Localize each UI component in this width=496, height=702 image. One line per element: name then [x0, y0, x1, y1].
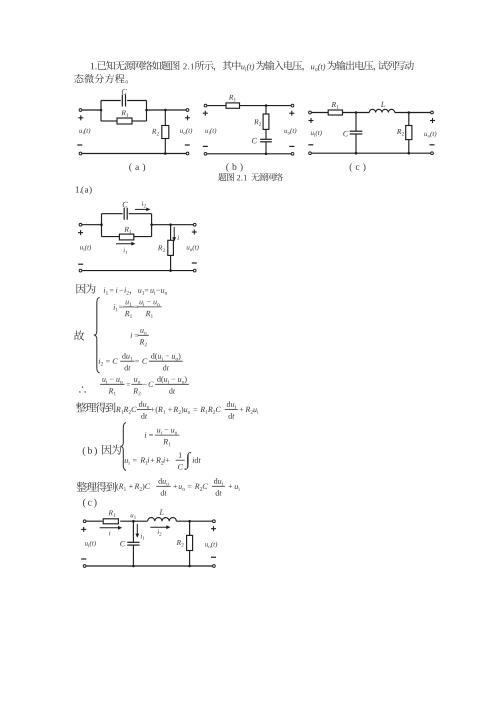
- circuit (b): R1 series, R2+C shunt: [203, 95, 297, 155]
- minus sign input: [81, 558, 86, 560]
- current arrow i: [172, 227, 176, 242]
- output terminal top-right: [213, 520, 216, 523]
- value label C: [122, 89, 127, 95]
- wire bottom branch right: [132, 120, 147, 122]
- node2 bottom junction: [188, 565, 191, 568]
- current arrow i1: [116, 242, 136, 246]
- input terminal top-left: [79, 223, 82, 226]
- minus sign output: [211, 556, 216, 558]
- capacitor C: [260, 139, 272, 142]
- plus sign input: [309, 118, 314, 123]
- plus sign input: [78, 115, 83, 120]
- minus sign input: [78, 263, 83, 265]
- plus sign output: [192, 230, 197, 235]
- wire node down to R2: [170, 225, 172, 241]
- label uo(t): [205, 542, 217, 549]
- node2 junction: [408, 111, 411, 114]
- output terminal bottom-right: [186, 152, 189, 155]
- resistor R1: [119, 234, 133, 240]
- resistor R2: [406, 126, 412, 140]
- wire right branch vertical: [146, 101, 148, 122]
- node2 junction: [188, 520, 191, 523]
- label ui(t): [79, 128, 90, 134]
- node C bottom junction: [132, 565, 135, 568]
- wire node2 down to R2: [189, 521, 191, 535]
- node junction top: [265, 104, 268, 107]
- circuit (c) solution: R1, C shunt, L, R2 with currents: [81, 510, 217, 568]
- label i1: [141, 534, 145, 540]
- label i2: [158, 529, 162, 535]
- circuit (c): R1 series, C shunt, L series, R2 shunt: [308, 102, 436, 155]
- circuit 1(a): RC parallel network with currents: [78, 201, 199, 272]
- wire node down to R2: [265, 106, 267, 114]
- input terminal bottom-left: [309, 152, 312, 155]
- output terminal bottom-right: [213, 565, 216, 568]
- current arrow i1: [135, 524, 139, 538]
- resistor R1: [226, 103, 240, 108]
- wire R1 to node: [240, 105, 267, 107]
- label R2: [397, 129, 404, 136]
- wire right branch vertical: [151, 214, 153, 237]
- wire top branch left: [101, 100, 121, 102]
- node R2 top junction: [164, 109, 167, 112]
- plus sign input: [203, 111, 208, 116]
- wire left branch vertical: [100, 101, 102, 122]
- wire node1 down to C: [355, 113, 357, 132]
- wire C to rail: [355, 134, 357, 153]
- wire left branch vertical: [101, 214, 103, 237]
- wire R1 to node1: [343, 112, 370, 114]
- label u1: [131, 514, 136, 519]
- minus sign input: [203, 145, 208, 147]
- resistor R2: [187, 535, 193, 550]
- wire R2 to rail: [170, 255, 172, 270]
- wire node2 down to R2: [408, 113, 410, 126]
- minus sign input: [308, 144, 313, 146]
- inductor L: [369, 109, 394, 112]
- input terminal top-left: [204, 104, 207, 107]
- node1 bottom junction: [355, 152, 358, 155]
- output terminal top-right: [193, 223, 196, 226]
- wire R2 to rail: [408, 140, 410, 154]
- wire C to rail: [132, 545, 134, 566]
- label L: [159, 510, 163, 515]
- wire R2 up: [164, 110, 166, 126]
- wire L to node2: [176, 520, 214, 522]
- output terminal bottom-right: [291, 152, 294, 155]
- input terminal top-left: [83, 520, 86, 523]
- wire bottom branch left: [101, 120, 117, 122]
- resistor R2: [162, 126, 169, 139]
- label R2: [176, 540, 183, 547]
- inductor L: [148, 518, 177, 522]
- wire R2 down: [164, 139, 166, 154]
- label R2: [158, 245, 165, 252]
- caption (b): [226, 163, 242, 172]
- output terminal top-right: [291, 104, 294, 107]
- resistor R1: [103, 519, 118, 524]
- minus sign output: [430, 144, 435, 146]
- input terminal bottom-left: [79, 152, 82, 155]
- wire top branch right: [129, 213, 152, 215]
- wire input to node: [82, 224, 102, 226]
- wire input to R1: [86, 520, 102, 522]
- output terminal top-right: [431, 111, 434, 114]
- node R2 bottom junction: [169, 269, 172, 272]
- input terminal bottom-left: [204, 152, 207, 155]
- label R1: [121, 110, 128, 117]
- output terminal bottom-right: [193, 269, 196, 272]
- label ui(t): [311, 130, 322, 136]
- label uo(t): [187, 245, 199, 252]
- node u1 junction: [132, 520, 135, 523]
- label ui(t): [80, 245, 91, 251]
- wire bottom rail: [312, 152, 431, 154]
- label R1: [331, 102, 338, 109]
- label C: [343, 131, 348, 137]
- capacitor C: [124, 208, 127, 220]
- input terminal top-left: [309, 111, 312, 114]
- wire input to node: [82, 109, 101, 111]
- plus sign input: [81, 527, 86, 532]
- node1 junction: [355, 111, 358, 114]
- caption (c): [350, 163, 366, 172]
- label C: [123, 202, 128, 208]
- minus sign output: [192, 262, 197, 264]
- label i: [109, 531, 110, 536]
- label i2: [142, 201, 146, 207]
- wire node to output: [266, 105, 293, 107]
- label uo(t): [180, 128, 192, 135]
- resistor R2: [168, 240, 174, 255]
- current arrow i2: [135, 208, 151, 212]
- node right junction: [150, 223, 153, 226]
- plus sign output: [430, 118, 435, 123]
- label R1: [229, 95, 236, 102]
- input terminal top-left: [79, 109, 82, 112]
- current arrow i2: [150, 525, 170, 529]
- wire R2 to C: [265, 129, 267, 139]
- wire top branch right: [127, 100, 146, 102]
- node right junction: [145, 109, 148, 112]
- minus sign output: [185, 144, 190, 146]
- label R2: [254, 119, 261, 126]
- label uo(t): [284, 128, 296, 135]
- wire bottom rail: [82, 153, 186, 155]
- label i: [178, 235, 179, 240]
- label R1: [124, 227, 131, 234]
- wire R1 to node u1: [120, 520, 147, 522]
- current arrow i: [100, 526, 123, 530]
- label uo(t): [424, 131, 436, 138]
- plus sign output: [211, 526, 216, 531]
- minus sign output: [289, 145, 294, 147]
- wire L to node2: [395, 112, 432, 114]
- plus sign input: [78, 230, 83, 235]
- capacitor C: [127, 542, 139, 545]
- capacitor C: [350, 131, 363, 134]
- wire input to R1: [312, 112, 329, 114]
- wire bottom branch right: [134, 236, 152, 238]
- wire bottom branch left: [102, 236, 120, 238]
- label C: [120, 541, 125, 547]
- label i1: [124, 248, 128, 254]
- output terminal top-right: [186, 109, 189, 112]
- resistor R2: [263, 114, 269, 129]
- wire C to rail: [265, 142, 267, 154]
- node junction bottom: [265, 153, 268, 156]
- wire input to R1: [207, 105, 226, 107]
- resistor R1: [328, 110, 342, 115]
- wire node u1 down to C: [132, 521, 134, 542]
- label ui(t): [85, 541, 96, 547]
- plus sign output: [289, 111, 294, 116]
- caption (a): [129, 163, 145, 172]
- wire top branch left: [102, 213, 123, 215]
- label R2: [152, 129, 159, 136]
- node2 bottom junction: [408, 152, 411, 155]
- label R1: [108, 510, 115, 517]
- wire bottom rail: [82, 270, 193, 272]
- node R2 bottom junction: [164, 152, 167, 155]
- output terminal bottom-right: [431, 152, 434, 155]
- wire node to output: [152, 224, 195, 226]
- label ui(t): [205, 128, 216, 134]
- input terminal bottom-left: [83, 565, 86, 568]
- wire bottom rail: [86, 565, 212, 567]
- wire R2 to rail: [189, 551, 191, 567]
- node left junction: [100, 223, 103, 226]
- minus sign input: [77, 144, 82, 146]
- input terminal bottom-left: [79, 269, 82, 272]
- wire bottom rail: [207, 153, 291, 155]
- wire node to output: [147, 109, 188, 111]
- capacitor C: [122, 95, 125, 107]
- node left junction: [100, 109, 103, 112]
- label L: [381, 102, 385, 107]
- resistor R1: [117, 118, 132, 124]
- circuit (a): RC parallel network: [77, 89, 192, 155]
- node R2 top junction: [169, 223, 172, 226]
- plus sign output: [185, 115, 190, 120]
- label C: [252, 138, 257, 144]
